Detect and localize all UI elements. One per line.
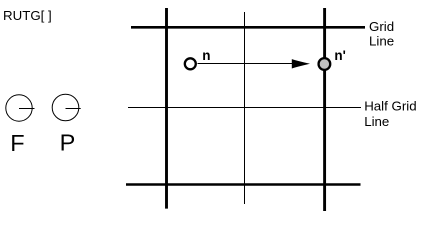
svg-text:n': n' bbox=[334, 48, 345, 63]
half grid vertical line bbox=[244, 12, 246, 204]
svg-text:F: F bbox=[10, 130, 24, 156]
icon circle F bbox=[6, 95, 32, 121]
half grid horizontal line with leader bbox=[128, 107, 361, 109]
icon P radius line bbox=[66, 108, 81, 110]
icon F radius line bbox=[19, 108, 35, 110]
svg-text:RUTG[ ]: RUTG[ ] bbox=[3, 8, 52, 23]
icon circle P bbox=[52, 94, 79, 121]
grid line horizontal top with leader bbox=[131, 26, 365, 29]
svg-text:n: n bbox=[202, 48, 210, 63]
node n' circle bbox=[319, 58, 331, 70]
svg-text:Line: Line bbox=[364, 114, 389, 129]
node n circle bbox=[185, 58, 196, 69]
arrow head bbox=[292, 59, 310, 68]
svg-text:Grid: Grid bbox=[369, 19, 394, 34]
grid line vertical right bbox=[323, 8, 326, 211]
grid line horizontal bottom bbox=[126, 183, 361, 186]
svg-text:Half Grid: Half Grid bbox=[364, 99, 416, 114]
grid line vertical left bbox=[165, 8, 168, 209]
svg-text:P: P bbox=[60, 130, 76, 156]
svg-text:Line: Line bbox=[369, 34, 394, 49]
arrow shaft bbox=[198, 63, 295, 65]
